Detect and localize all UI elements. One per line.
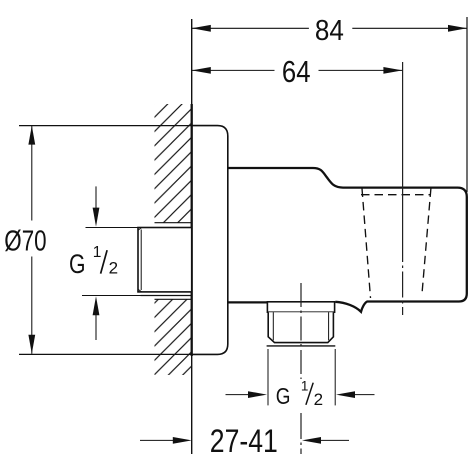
svg-text:64: 64	[282, 54, 311, 89]
svg-text:G: G	[69, 249, 86, 279]
svg-text:2: 2	[109, 259, 118, 278]
svg-text:2: 2	[314, 390, 323, 409]
svg-text:Ø70: Ø70	[4, 226, 46, 258]
svg-text:1: 1	[93, 244, 102, 261]
svg-text:G: G	[276, 383, 291, 409]
svg-text:1: 1	[301, 379, 309, 394]
svg-text:84: 84	[315, 15, 344, 47]
svg-text:27-41: 27-41	[210, 423, 278, 459]
